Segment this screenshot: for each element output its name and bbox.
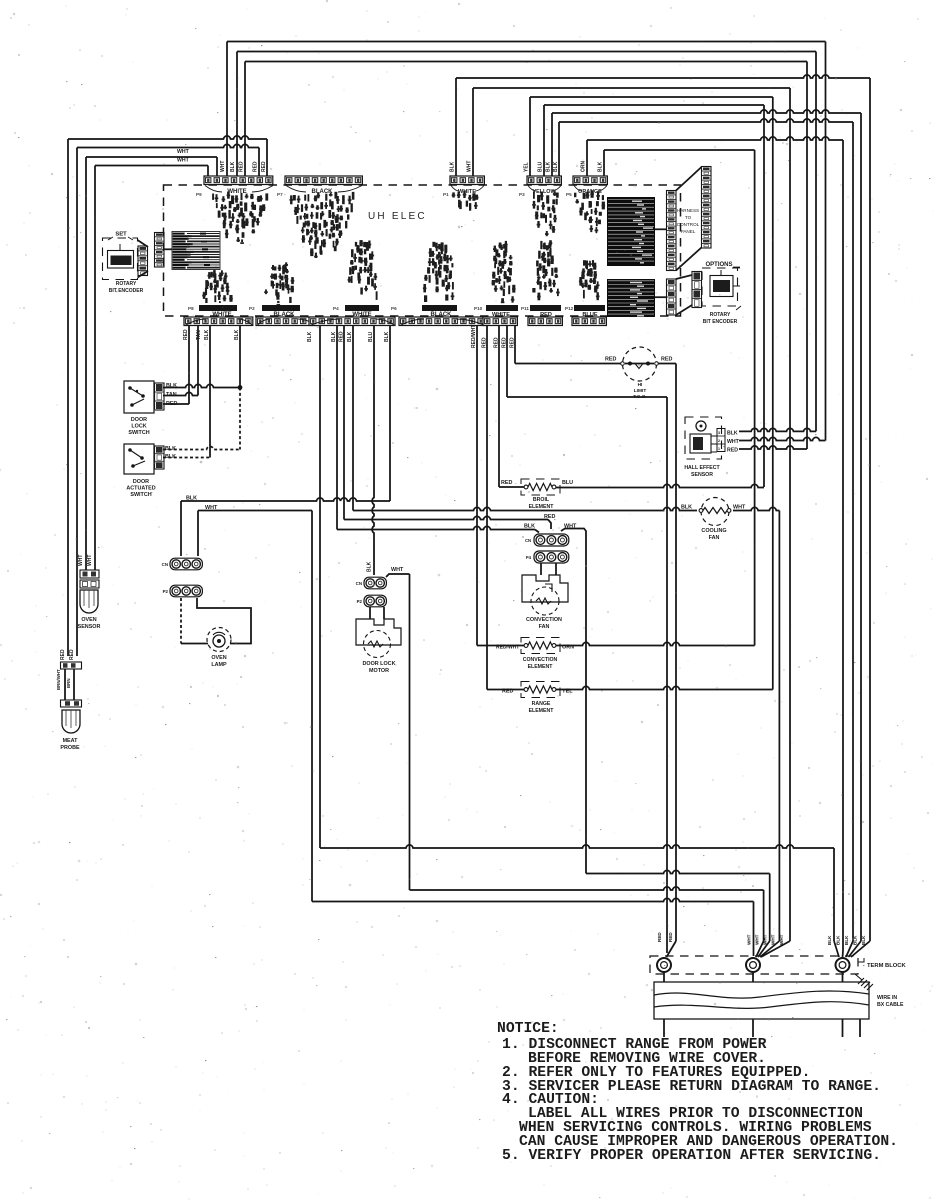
svg-text:P8: P8: [188, 306, 194, 311]
svg-text:BIT ENCODER: BIT ENCODER: [703, 319, 738, 325]
wire C1-WHT top loop: [227, 41, 826, 43]
bake element: [521, 682, 560, 698]
svg-text:CONVECTION: CONVECTION: [523, 657, 558, 663]
wire bundle above P4: [355, 242, 357, 247]
svg-text:BLK: BLK: [553, 161, 559, 172]
wire SET encoder to block: [164, 248, 173, 250]
svg-text:LAMP: LAMP: [211, 662, 227, 668]
svg-text:P5: P5: [566, 192, 572, 197]
wire bundle above P8: [208, 272, 210, 279]
wire broil BLU: [556, 484, 764, 487]
wire oven-sensor WHT 2: [95, 165, 208, 167]
svg-text:WHITE: WHITE: [212, 312, 231, 318]
svg-text:ELEMENT: ELEMENT: [529, 504, 555, 510]
wire bundle under P3: [533, 191, 535, 199]
svg-text:RED: RED: [502, 689, 513, 695]
wire oven-sensor WHT 1: [86, 156, 217, 158]
svg-text:YEL: YEL: [524, 162, 530, 172]
svg-text:ORN: ORN: [581, 161, 587, 173]
svg-text:P2: P2: [163, 589, 169, 594]
meat probe bulb: [62, 710, 80, 733]
wire B3 pin2 to term3: [319, 325, 321, 848]
oven lamp: [207, 628, 231, 652]
BX cable wave 2: [654, 1002, 869, 1009]
svg-text:BLK: BLK: [331, 331, 337, 342]
svg-text:BLK: BLK: [347, 331, 353, 342]
BX cable stubs: [663, 1019, 665, 1037]
svg-text:FAN: FAN: [539, 624, 550, 630]
terminal T1: [657, 958, 671, 972]
conv fan motor: [522, 575, 568, 602]
svg-text:BLK: BLK: [450, 161, 456, 172]
svg-text:WHT: WHT: [564, 524, 577, 530]
set encoder fan lines: [138, 240, 149, 247]
connector P2 BLACK (bottom): [256, 317, 316, 326]
wire bundle above P10: [494, 246, 496, 252]
options fan lines: [676, 275, 692, 279]
harness pin column B: [702, 167, 712, 249]
svg-text:TAN: TAN: [196, 330, 202, 340]
svg-text:P2: P2: [357, 599, 363, 604]
svg-text:WHT: WHT: [779, 934, 784, 945]
svg-text:WHT: WHT: [205, 505, 218, 511]
wire hall BLK: [739, 428, 816, 431]
svg-text:ACTUATED: ACTUATED: [126, 486, 155, 492]
svg-text:WHT: WHT: [177, 149, 190, 155]
connector P12 BLUE (bottom): [572, 317, 606, 326]
wire lamp right lead: [197, 598, 251, 644]
wire C5-BLK loop to conv riser: [603, 150, 605, 176]
wire door-lock RED: [163, 403, 189, 405]
set encoder pin column: [138, 246, 148, 276]
svg-text:HARNESS: HARNESS: [677, 208, 699, 213]
wire conv-elem ORN: [556, 642, 755, 645]
svg-text:CN: CN: [162, 562, 168, 567]
wire bundle under P1: [452, 192, 455, 197]
broil element: [521, 479, 560, 495]
svg-text:WHT: WHT: [467, 161, 473, 172]
wire meat-probe RED 1: [68, 136, 267, 139]
wire hall WHT: [739, 437, 826, 440]
svg-text:BLK: BLK: [844, 935, 849, 945]
svg-text:RED: RED: [727, 448, 738, 454]
svg-text:CONVECTION: CONVECTION: [526, 617, 562, 623]
svg-text:T.C.O.: T.C.O.: [633, 394, 647, 400]
svg-text:RED: RED: [239, 161, 245, 172]
wire door-lock BLK: [163, 384, 240, 387]
svg-text:WHT: WHT: [87, 555, 93, 566]
svg-text:BRN: BRN: [66, 678, 71, 688]
svg-text:ROTARY: ROTARY: [116, 281, 137, 287]
svg-text:RED: RED: [501, 480, 512, 486]
svg-text:OPTIONS: OPTIONS: [705, 262, 732, 268]
svg-text:WHITE: WHITE: [352, 312, 371, 318]
set encoder inner: [108, 251, 134, 269]
wire oven-lamp WHT to term2: [197, 511, 199, 557]
svg-text:RED: RED: [494, 337, 500, 348]
svg-text:P9: P9: [196, 192, 202, 197]
wire bundle under P5: [574, 193, 576, 198]
svg-text:RED: RED: [668, 932, 673, 942]
svg-text:TAN: TAN: [166, 392, 177, 398]
svg-text:WHT: WHT: [771, 934, 776, 945]
svg-text:OVEN: OVEN: [81, 617, 96, 623]
svg-text:SET: SET: [115, 232, 127, 238]
BX cable box: [654, 982, 869, 1019]
wire B5-RED to term1: [506, 325, 508, 397]
wire bundle under P7: [290, 195, 292, 204]
svg-text:P4: P4: [526, 555, 532, 560]
BX cable wave 1: [654, 991, 869, 998]
motor connector P2: [364, 595, 386, 607]
wire bundle above P12: [583, 260, 586, 266]
svg-text:OVEN: OVEN: [211, 655, 226, 661]
svg-text:ORN: ORN: [562, 645, 574, 651]
svg-text:BLU: BLU: [538, 161, 544, 172]
svg-text:BLU: BLU: [368, 331, 374, 342]
wire bundle above P6: [433, 242, 436, 246]
svg-text:RED: RED: [657, 932, 662, 942]
svg-text:P2: P2: [249, 306, 255, 311]
options encoder box (dashed): [702, 268, 738, 306]
svg-text:SENSOR: SENSOR: [78, 624, 101, 630]
svg-text:NOTICE:: NOTICE:: [497, 1021, 559, 1037]
wire C4-BLK loop to term3 b: [558, 122, 560, 176]
svg-text:DOOR LOCK: DOOR LOCK: [363, 661, 396, 667]
svg-text:WHT: WHT: [763, 934, 768, 945]
svg-text:BLK: BLK: [827, 935, 832, 945]
svg-text:BLK: BLK: [861, 935, 866, 945]
svg-text:RED: RED: [661, 357, 672, 363]
svg-text:HI: HI: [638, 382, 643, 388]
svg-text:YELLOW: YELLOW: [532, 189, 556, 195]
wire door-motor BLK vertical: [372, 325, 374, 575]
wire C4-YEL loop to bake riser: [529, 97, 531, 176]
svg-text:LIMIT: LIMIT: [634, 388, 647, 394]
svg-text:MEAT: MEAT: [63, 738, 79, 744]
UH ELEC control box (dashed): [164, 185, 681, 316]
svg-text:SWITCH: SWITCH: [130, 492, 151, 498]
svg-text:RED/WHT: RED/WHT: [471, 325, 477, 348]
wire meat-probe RED 2: [77, 144, 259, 147]
svg-text:P4: P4: [333, 306, 339, 311]
svg-text:P3: P3: [519, 192, 525, 197]
door actuated switch box: [124, 444, 154, 474]
connector P1 WHITE (top): [450, 176, 484, 185]
oven sensor connector: [80, 570, 99, 578]
svg-text:BLK: BLK: [727, 431, 738, 437]
meat probe connector 2: [61, 700, 82, 707]
wire B3-BLK to cooling fan: [352, 325, 354, 511]
svg-text:PROBE: PROBE: [60, 745, 80, 751]
motor connector CN: [364, 577, 386, 589]
connector P7 BLACK (top): [285, 176, 362, 185]
svg-text:RED: RED: [482, 337, 488, 348]
door actuated switch pin column: [155, 446, 165, 469]
svg-text:BROIL: BROIL: [533, 497, 550, 503]
term block (dashed): [650, 956, 858, 974]
connector P6 BLACK (bottom): [399, 317, 485, 326]
svg-text:BLACK: BLACK: [274, 312, 296, 318]
oven sensor bulb: [80, 590, 98, 613]
svg-text:BIT ENCODER: BIT ENCODER: [109, 288, 144, 294]
harness block upper: [607, 197, 655, 266]
conv fan connector row 2: [534, 551, 569, 563]
svg-text:BLK: BLK: [367, 561, 373, 572]
svg-text:DOOR: DOOR: [131, 417, 147, 423]
wire broil RED: [498, 325, 500, 487]
set encoder box (dashed): [103, 238, 138, 280]
svg-text:WHT: WHT: [177, 158, 190, 164]
svg-text:WHT: WHT: [747, 934, 752, 945]
wire block2 to column: [655, 296, 666, 298]
wire C4-BLU loop to broil riser: [543, 105, 545, 176]
svg-text:BLK: BLK: [598, 161, 604, 172]
conv fan connector row 1: [534, 534, 569, 546]
svg-text:CONTROL: CONTROL: [677, 222, 700, 227]
svg-text:BLK: BLK: [307, 331, 313, 342]
wire door-actuated BLK 1: [163, 446, 240, 449]
svg-text:BLK: BLK: [681, 505, 692, 511]
wire WHT loop to term2: [312, 898, 754, 901]
connector P9 WHITE (top): [204, 176, 273, 185]
wire B5-RED to hi-limit: [514, 325, 516, 364]
svg-text:COOLING: COOLING: [701, 528, 726, 534]
wire C1-BLK top loop: [237, 51, 816, 53]
svg-text:ELEMENT: ELEMENT: [529, 708, 555, 714]
svg-text:BX CABLE: BX CABLE: [877, 1002, 904, 1008]
connector P5 ORANGE (top): [573, 176, 607, 185]
set encoder column on box edge: [155, 233, 165, 268]
svg-text:BLU: BLU: [562, 480, 573, 486]
svg-text:RED/WHT: RED/WHT: [496, 645, 519, 651]
svg-text:BLK: BLK: [546, 161, 552, 172]
svg-text:BLK: BLK: [524, 524, 535, 530]
harness wire-list block (left): [172, 232, 220, 270]
svg-text:BLK: BLK: [836, 935, 841, 945]
lamp connector CN1: [170, 558, 202, 570]
svg-text:TO: TO: [685, 215, 692, 220]
svg-text:WIRE IN: WIRE IN: [877, 995, 897, 1001]
svg-text:DOOR: DOOR: [133, 479, 149, 485]
harness pin column A: [667, 191, 677, 271]
meat probe connector 1: [61, 662, 82, 669]
convection element: [521, 638, 560, 654]
svg-text:RED: RED: [60, 649, 66, 660]
wire cooling-fan WHT to term2: [733, 507, 779, 510]
svg-text:YEL: YEL: [562, 689, 573, 695]
options pin column D: [692, 272, 702, 308]
door lock motor body: [356, 619, 401, 645]
svg-text:BLK: BLK: [186, 496, 197, 502]
harness block lower: [607, 279, 655, 317]
wire C4-BLK loop to term3 a: [551, 113, 553, 176]
wire conv-elem RED/WHT: [476, 325, 478, 646]
svg-text:RED: RED: [605, 357, 616, 363]
wire hall RED: [739, 446, 807, 449]
svg-text:P1: P1: [443, 192, 449, 197]
svg-text:CN: CN: [356, 581, 362, 586]
svg-text:LOCK: LOCK: [131, 424, 146, 430]
svg-text:WHT: WHT: [78, 555, 84, 566]
svg-text:RED: RED: [544, 514, 555, 520]
connector P4 WHITE (bottom): [309, 317, 395, 326]
wire bundle under P9: [212, 194, 214, 200]
svg-text:5. VERIFY PROPER OPERATION AFT: 5. VERIFY PROPER OPERATION AFTER SERVICI…: [502, 1148, 881, 1164]
svg-text:CN: CN: [525, 538, 531, 543]
svg-text:WHT: WHT: [755, 934, 760, 945]
svg-text:TERM BLOCK: TERM BLOCK: [867, 963, 906, 969]
svg-text:PANEL: PANEL: [681, 229, 696, 234]
wire bundle above P2: [272, 265, 274, 270]
wire C1-RED top loop: [245, 61, 807, 63]
svg-text:UH ELEC: UH ELEC: [368, 211, 427, 222]
wire meat probe mid: [64, 669, 66, 700]
svg-text:BLK: BLK: [204, 329, 210, 340]
svg-text:BLK: BLK: [384, 331, 390, 342]
svg-text:RED: RED: [69, 649, 75, 660]
wire C5-ORN loop to term3: [586, 140, 588, 176]
svg-text:P10: P10: [474, 306, 483, 311]
svg-text:BLUE: BLUE: [582, 312, 597, 318]
svg-text:RED: RED: [166, 401, 177, 407]
wire bake RED: [486, 325, 488, 690]
wire B3-BLK to conv-fan: [336, 325, 338, 530]
wire door-lock TAN: [163, 392, 198, 395]
options pin column C: [667, 279, 677, 315]
wire block1 to column: [655, 228, 666, 230]
wire hi-limit to term1: [656, 363, 676, 365]
svg-text:BLK: BLK: [166, 383, 177, 389]
svg-text:WHITE: WHITE: [227, 189, 246, 195]
svg-text:RED: RED: [502, 337, 508, 348]
junction dot: [238, 385, 243, 390]
svg-text:BLK: BLK: [165, 446, 176, 452]
wire C3-WHT loop to term2: [472, 88, 474, 176]
terminal stubs: [663, 972, 665, 982]
svg-text:WHT: WHT: [220, 161, 226, 172]
svg-text:WHITE: WHITE: [492, 312, 510, 318]
svg-text:ROTARY: ROTARY: [710, 312, 731, 318]
wire door-actuated BLK 2: [163, 457, 210, 459]
wire conv-fan WHT: [561, 529, 586, 874]
hall effect sensor: [685, 417, 722, 459]
connector P8 WHITE (bottom): [184, 317, 253, 326]
terminal T3: [836, 958, 850, 972]
svg-text:WHT: WHT: [733, 505, 746, 511]
svg-text:WHT: WHT: [391, 567, 404, 573]
svg-text:P6: P6: [391, 306, 397, 311]
svg-text:RED: RED: [510, 337, 516, 348]
svg-text:BRN/WHT: BRN/WHT: [56, 669, 61, 690]
svg-text:P7: P7: [277, 192, 283, 197]
wire B3-RED to conv-fan: [343, 325, 345, 520]
connector P10 WHITE (bottom): [483, 317, 517, 326]
options encoder inner: [710, 276, 733, 297]
svg-text:MOTOR: MOTOR: [369, 668, 389, 674]
svg-text:RANGE: RANGE: [532, 701, 551, 707]
svg-text:BLK: BLK: [234, 329, 240, 340]
svg-text:WHT: WHT: [727, 439, 740, 445]
svg-text:ELEMENT: ELEMENT: [528, 664, 554, 670]
ground symbol: [855, 974, 862, 980]
svg-text:P12: P12: [565, 306, 574, 311]
label TERM BLOCK: [858, 958, 864, 962]
wire bake YEL: [556, 686, 773, 689]
terminal T2: [746, 958, 760, 972]
connector P11 RED (bottom): [528, 317, 562, 326]
svg-text:BLK: BLK: [230, 161, 236, 172]
svg-text:RED: RED: [183, 329, 189, 340]
svg-text:RED: RED: [339, 331, 345, 342]
svg-text:RED: RED: [540, 312, 552, 318]
svg-text:RED: RED: [253, 161, 259, 172]
lamp connector P2: [170, 585, 202, 597]
harness fan lines: [676, 167, 702, 191]
wire B1-BLK junction vertical: [239, 325, 241, 388]
svg-text:P11: P11: [521, 306, 529, 311]
wire oven-lamp BLK: [180, 501, 182, 556]
svg-text:SENSOR: SENSOR: [691, 472, 713, 478]
svg-text:HALL EFFECT: HALL EFFECT: [684, 465, 720, 471]
connector P3 YELLOW (top): [527, 176, 561, 185]
cooling fan: [701, 498, 729, 526]
wire lamp left lead: [180, 598, 182, 644]
wire door-motor WHT: [386, 574, 410, 577]
svg-text:FAN: FAN: [709, 535, 720, 541]
svg-text:RED: RED: [261, 161, 267, 172]
wire C3-BLK loop to term3: [455, 78, 457, 176]
door lock switch box: [124, 381, 154, 413]
door lock switch pin column: [155, 383, 165, 410]
svg-text:BLK: BLK: [165, 454, 176, 460]
wire bundle above P11: [540, 241, 542, 249]
hi-limit TCO: [623, 347, 657, 381]
svg-text:BLACK: BLACK: [431, 312, 453, 318]
